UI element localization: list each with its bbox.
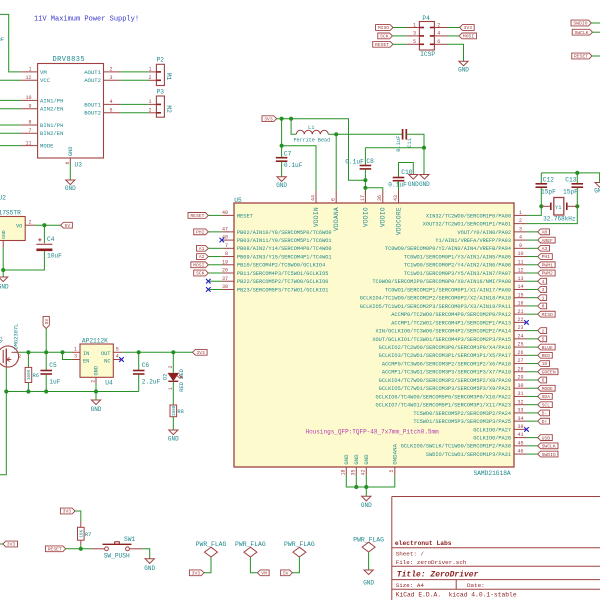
svg-text:4: 4 [437,31,440,37]
U5 pin 10 PA05 [514,256,527,258]
svg-text:GCLKIO0/PA28: GCLKIO0/PA28 [473,436,511,442]
svg-text:0: 0 [542,304,545,310]
wire pin 27 [527,363,538,365]
ground symbol near C11 [420,175,429,180]
svg-text:C7: C7 [284,151,292,158]
svg-text:A0: A0 [542,230,548,236]
label A0 [538,229,550,235]
wire C6 to ground rail [138,375,140,392]
label 1 [538,295,547,301]
connector P2 (M1) [156,64,164,85]
svg-text:AP2112K: AP2112K [82,338,108,345]
svg-text:18: 18 [341,470,347,476]
ground symbol near C10 [409,175,418,180]
U4 pin 3 EN [72,359,80,361]
svg-text:NC: NC [104,358,110,364]
U4 pin 5 OUT [113,351,121,353]
capacitor C7 0.1uF [276,157,288,159]
wire U4 OUT to 3V3 [122,351,193,353]
svg-text:GND: GND [91,406,102,413]
U5 pin 47 PB02 [222,231,234,233]
label PWM1 [538,262,555,268]
svg-text:12: 12 [25,75,31,81]
svg-text:GCLKIO7/TC4WO1/SERCOM5P1/SERCO: GCLKIO7/TC4WO1/SERCOM5P1/SERCOM3P1/X11/P… [376,403,511,409]
wire U3 GND [69,164,71,181]
svg-text:GCLKIO0/PA27: GCLKIO0/PA27 [473,427,511,433]
U5 pin 35 GND [355,467,357,475]
U5 pin 37 PB22 [222,280,234,282]
U3 pin 1 VM [21,71,38,73]
svg-text:M1: M1 [165,73,172,81]
svg-text:48: 48 [222,235,228,241]
svg-text:11V Maximum Power Supply!: 11V Maximum Power Supply! [34,16,139,24]
svg-text:23: 23 [517,325,523,331]
svg-text:PWM1: PWM1 [542,262,553,268]
power label VM [257,570,269,576]
P4 pin 3 [407,35,420,37]
label A2 [197,254,209,260]
label MOSI [191,262,208,268]
wire PWR_FLAG to 3V3 [204,557,211,573]
ground symbol below U4 [91,400,100,405]
svg-text:GND: GND [94,366,100,376]
svg-text:13: 13 [517,276,523,282]
label 5 [538,336,547,342]
wire C5 to ground rail [45,375,47,392]
svg-text:TC5WO0/SERCOM5P2/SERCOM3P2/PA2: TC5WO0/SERCOM5P2/SERCOM3P2/PA24 [413,411,511,417]
svg-text:43: 43 [393,195,399,201]
wire U5 pin 1 to crystal [527,187,542,215]
svg-text:35: 35 [351,470,357,476]
wire pin 41 [527,437,538,439]
svg-text:2.2uF: 2.2uF [142,379,161,386]
wire C4 to GND [3,251,44,270]
svg-text:GND: GND [65,185,76,192]
svg-text:GCLKIO5/TC1WO1/SERCOM2P3/SERCO: GCLKIO5/TC1WO1/SERCOM2P3/SERCOM0P3/X3/AI… [360,304,511,310]
U5 pin 13 PA08 [514,280,527,282]
ground symbol near crystal (clipped) [595,183,600,188]
svg-text:XOUT32/TC2WO1/SERCOM1P1/PA01: XOUT32/TC2WO1/SERCOM1P1/PA01 [423,222,511,228]
wire pin 21 [527,313,538,315]
U5 pin 30 PA21 [514,387,527,389]
power label 3V3 [189,570,204,576]
svg-text:C8: C8 [366,158,374,165]
wire C10 to VDDCORE pin 43 [398,181,400,195]
U5 pin 7 PB08 [222,247,234,249]
ground symbol below U5 [362,496,371,501]
svg-text:TC5WO1/SERCOM5P3/SERCOM3P3/PA2: TC5WO1/SERCOM5P3/SERCOM3P3/PA25 [413,419,511,425]
U5 pin 1 PA00 [514,214,527,216]
svg-text:44: 44 [310,195,316,201]
svg-text:7: 7 [225,243,228,249]
label 10 [538,361,550,367]
U4 pin 4 NC [113,359,121,361]
svg-text:Q1: Q1 [0,337,4,343]
svg-text:SCK: SCK [196,271,205,277]
power label 5V [61,222,73,228]
label 4 [538,278,547,284]
svg-text:11: 11 [25,140,31,146]
svg-text:33: 33 [517,408,523,414]
mcu U5 SAMD21G18A body [234,203,514,467]
label PWM2 [538,270,555,276]
no-connect pin 48 [220,238,225,243]
svg-text:BOUT2: BOUT2 [84,110,101,117]
U5 pin 26 PA17 [514,354,527,356]
svg-text:32.768kHz: 32.768kHz [543,215,576,222]
svg-text:Size: A4: Size: A4 [396,582,425,589]
svg-text:MODE: MODE [40,143,54,150]
svg-text:40: 40 [222,210,228,216]
wire pin 26 [527,354,538,356]
wire pin 24 [527,338,538,340]
svg-text:5V: 5V [44,319,50,325]
svg-text:17S5TR: 17S5TR [0,209,21,216]
svg-text:PH2: PH2 [196,230,205,236]
svg-text:C5: C5 [49,362,57,369]
U5 pin 18 GND [345,467,347,475]
svg-text:PB22/SERCOM5P2/TC7WO0/GCLKIO0: PB22/SERCOM5P2/TC7WO0/GCLKIO0 [237,279,328,285]
svg-text:PH1: PH1 [542,254,551,260]
connector P3 (M2) [156,96,164,117]
svg-text:GND: GND [361,502,372,509]
wire to U3 BIN1/PH [0,124,21,126]
svg-text:P4: P4 [422,15,430,22]
U3 pin 7 BIN2/EN [21,132,38,134]
wire pin 3 [527,231,538,233]
svg-text:VDDIO: VDDIO [362,207,369,227]
U4 pin 1 IN [72,351,80,353]
svg-text:8: 8 [28,120,31,126]
wire SWDIO to edge [591,22,600,24]
U5 pin 38 PB23 [222,288,234,290]
U2 pin 2 VO [25,224,35,226]
ic U2 regulator body (clipped at left edge) [0,217,25,241]
svg-text:3V3: 3V3 [196,350,205,356]
label D+ [538,418,550,424]
svg-text:2: 2 [148,108,151,114]
wire pin 9 [527,247,538,249]
svg-text:1: 1 [148,99,151,105]
label GREEN [538,369,558,375]
svg-text:6: 6 [542,378,545,384]
wire pin 11 [527,264,538,266]
svg-text:37: 37 [222,276,228,282]
U5 pin 43 VDDCORE [398,191,400,204]
svg-text:25: 25 [517,342,523,348]
svg-text:GCLKIO6/TC4WO0/SERCOM5P0/SERCO: GCLKIO6/TC4WO0/SERCOM5P0/SERCOM3P0/X10/P… [376,394,511,400]
svg-text:PB09/AIN3/Y15/SERCOM4P1/TC4WO1: PB09/AIN3/Y15/SERCOM4P1/TC4WO1 [237,254,332,260]
svg-text:VO: VO [16,223,22,229]
svg-text:SWDIO/TC1WO1/SERCOM1P3/PA31: SWDIO/TC1WO1/SERCOM1P3/PA31 [426,452,511,458]
svg-text:D+: D+ [542,419,548,425]
label D- [538,410,550,416]
svg-text:3: 3 [74,354,77,360]
wire pin 29 [527,379,538,381]
P4 pin 6 [434,43,447,45]
wire U5 ground bus [346,475,395,487]
svg-text:TC0WO1/SERCOM0P1/Y3/AIN1/AIN5/: TC0WO1/SERCOM0P1/Y3/AIN1/AIN5/PA05 [404,254,511,260]
wire PWR_FLAG GND [368,552,370,570]
U5 pin 41 PA28 [514,437,527,439]
U3 pin 5 BOUT2 [104,112,121,114]
P4 pin 4 [434,35,447,37]
svg-text:R7: R7 [85,532,91,538]
svg-text:A2: A2 [199,254,205,260]
svg-text:OUT: OUT [101,351,111,357]
svg-text:D-: D- [542,411,548,417]
svg-text:15pF: 15pF [563,188,578,195]
wire P4 pin 4 to MOSI [447,35,459,37]
label SCK at P4 [378,33,393,39]
label SWDIO [538,451,558,457]
svg-text:RESET: RESET [48,546,62,552]
wire to U3 VCC [0,79,21,81]
svg-text:L1: L1 [308,125,314,131]
svg-text:29: 29 [517,375,523,381]
label SWDIO (right edge) [571,20,591,26]
svg-text:ACCMP1/TC3WO1/SERCOM3P3/SERCOM: ACCMP1/TC3WO1/SERCOM3P3/SERCOM1P3/X7/PA1… [382,370,511,376]
svg-text:TC0WO0/SERCOM0P0/Y2/AIN0/AIN4/: TC0WO0/SERCOM0P0/Y2/AIN0/AIN4/VREFB/PA04 [385,246,511,252]
svg-text:M2: M2 [165,105,172,113]
svg-text:4: 4 [519,235,522,241]
svg-text:GND: GND [0,284,9,291]
wire SW1 to GND [143,549,150,559]
svg-text:0.1uF: 0.1uF [396,136,402,152]
capacitor C4 10uF [43,225,45,243]
ic U4 AP2112K body [80,344,113,377]
svg-text:USB: USB [542,435,551,441]
U5 pin 17 VDDIO [364,191,366,204]
label SCK [194,270,209,276]
svg-text:20: 20 [222,268,228,274]
svg-text:10: 10 [517,251,523,257]
power label 5V (vertical) [43,316,50,328]
svg-text:AREF: AREF [542,238,553,244]
svg-text:MISO: MISO [542,312,553,318]
svg-text:3V3: 3V3 [192,570,201,576]
svg-text:45: 45 [517,440,523,446]
P4 pin 1 [407,27,420,29]
svg-text:GND: GND [144,565,155,572]
wire pin 23 [527,330,538,332]
svg-text:2: 2 [110,67,113,73]
ground symbol below U2 [0,277,8,282]
ground symbol below PWR_FLAG [364,570,373,575]
svg-text:KiCad E.D.A. kicad 4.0.1-stab: KiCad E.D.A. kicad 4.0.1-stable [396,592,517,599]
P4 pin 2 [434,27,447,29]
svg-text:1000: 1000 [172,405,177,416]
wire L1 out to C11 [336,133,402,135]
U3 pin 3 AOUT2 [104,79,121,81]
svg-text:C13: C13 [565,177,576,184]
svg-text:RESET: RESET [574,54,588,60]
svg-text:PB10/SECOM4P2/TC5WO0/GCLKIO4: PB10/SECOM4P2/TC5WO0/GCLKIO4 [237,263,325,269]
U5 pin 14 PA09 [514,288,527,290]
svg-text:MOSI: MOSI [463,34,474,40]
no-connect pin 22 [524,320,529,325]
wire pin 16 [527,305,538,307]
U5 pin 11 PA06 [514,264,527,266]
svg-text:GND: GND [408,181,419,188]
svg-text:RED: RED [542,353,551,359]
resistor R6 [27,352,29,367]
svg-text:4: 4 [542,279,545,285]
wire pin 40 [208,214,222,216]
svg-text:5: 5 [110,108,113,114]
svg-text:GND: GND [353,454,360,465]
capacitor C11 0.1uF [402,129,404,140]
U5 pin 29 PA20 [514,379,527,381]
inductor L1 Ferrite Bead [291,119,296,135]
wire SWCLK to edge [593,31,600,33]
wire U2 VO to 5V [35,224,61,226]
capacitor C8 0.1uF [365,147,424,149]
wire pin 46 [527,453,538,455]
svg-text:AIN2/EN: AIN2/EN [40,106,64,113]
svg-text:R8: R8 [177,409,183,415]
svg-text:Date:: Date: [467,582,485,589]
ground symbol below C7 [277,177,286,182]
svg-text:C11: C11 [407,138,413,148]
wire PWR_FLAG to 5V [292,557,299,573]
wire 3V3 to C7 and VDDIN [281,119,283,157]
svg-text:GCLKIO0/SWCLK/TC1WO0/SERCOM1P2: GCLKIO0/SWCLK/TC1WO0/SERCOM1P2/PA30 [401,444,511,450]
svg-text:2: 2 [437,22,440,28]
U5 pin 20 PB11 [222,272,234,274]
svg-text:GND: GND [419,181,430,188]
svg-text:GND: GND [363,454,370,465]
svg-text:22: 22 [517,317,523,323]
wire P4 pin 6 to GND [447,44,464,61]
U4 pin 2 GND [95,377,97,383]
wire pin 25 [527,346,538,348]
U3 pin 8 BIN1/PH [21,124,38,126]
svg-text:0.1uF: 0.1uF [345,159,364,166]
svg-text:GND: GND [68,146,74,156]
svg-text:9: 9 [28,104,31,110]
P2 pin 2 [148,79,156,81]
label SWCLK [538,443,558,449]
svg-text:GCLKIO2/TC2WO0/SERCOM3P0/SERCO: GCLKIO2/TC2WO0/SERCOM3P0/SERCOM1P0/X4/PA… [379,345,511,351]
svg-text:SW_PUSH: SW_PUSH [104,553,130,560]
svg-text:3: 3 [413,31,416,37]
svg-text:electronut Labs: electronut Labs [395,540,452,547]
label A1 [197,245,209,251]
svg-text:GND: GND [343,454,350,465]
label MOSI at P4 [459,33,476,39]
wire R6 to ground rail [27,383,29,392]
svg-text:16: 16 [517,301,523,307]
U2 GND pin wire [2,241,4,248]
wire pin 34 [527,420,538,422]
label 6 [538,377,547,383]
P3 pin 1 [148,103,156,105]
wire pin 38 [208,288,222,290]
U5 pin 33 PA24 [514,412,527,414]
label SDA [538,394,553,400]
wire U4 GND rail to symbol [95,392,97,401]
svg-text:3V3: 3V3 [7,542,16,548]
svg-text:Housings_QFP:TQFP-48_7x7mm_Pit: Housings_QFP:TQFP-48_7x7mm_Pitch0.5mm [306,428,440,435]
label MISO [538,311,555,317]
svg-text:PB02/AIN10/Y8/SERCOM5P0/TC6WO0: PB02/AIN10/Y8/SERCOM5P0/TC6WO0 [237,230,332,236]
svg-text:PB11/SERCOM4P3/TC5WO1/GCLKIO5: PB11/SERCOM4P3/TC5WO1/GCLKIO5 [237,271,328,277]
svg-text:8: 8 [225,251,228,257]
svg-text:U2: U2 [0,195,6,202]
wire U3 to P2 pin 1 [120,71,148,73]
U5 pin 34 PA25 [514,420,527,422]
U5 pin 24 PA15 [514,338,527,340]
svg-text:XIN/GCLKIO0/TC3WO0/SERCOM4P2/S: XIN/GCLKIO0/TC3WO0/SERCOM4P2/SERCOM2P2/P… [376,329,511,335]
svg-text:31: 31 [517,391,523,397]
svg-text:GND: GND [168,436,179,443]
svg-text:MOSI: MOSI [193,262,204,268]
svg-text:VCC: VCC [40,77,51,84]
svg-text:GCLKIO4/TC1WO0/SERCOM2P2/SERCO: GCLKIO4/TC1WO0/SERCOM2P2/SERCOM0P2/X2/AI… [360,296,511,302]
svg-text:1: 1 [28,67,31,73]
wire MISO [393,27,407,29]
wire Q1 drain to 5V rail [19,351,72,353]
svg-text:21: 21 [517,309,523,315]
label SCL [538,402,553,408]
svg-text:PB03/AIN11/Y9/SERCOM5P1/TC6WO1: PB03/AIN11/Y9/SERCOM5P1/TC6WO1 [237,238,332,244]
svg-text:C12: C12 [543,177,554,184]
svg-text:46: 46 [517,449,523,455]
svg-text:3: 3 [110,75,113,81]
no-connect pin 39 [524,427,529,432]
svg-text:10K: 10K [79,529,84,537]
svg-text:VM: VM [261,570,267,576]
U5 pin 48 PB03 [222,239,234,241]
wire 5V label to rail [45,329,47,353]
svg-text:3: 3 [519,226,522,232]
svg-text:AOUT1: AOUT1 [84,69,101,76]
U3 pin 4 BOUT1 [104,103,121,105]
svg-text:2: 2 [28,219,31,225]
wire C11 to GND corner [406,134,424,174]
svg-text:SWCLK: SWCLK [542,444,556,450]
svg-text:ACCMP1/TC2WO1/SERCOM4P1/SERCOM: ACCMP1/TC2WO1/SERCOM4P1/SERCOM2P1/PA13 [391,320,511,326]
label RED [538,352,553,358]
svg-text:P3: P3 [157,88,165,95]
svg-text:VDDCORE: VDDCORE [395,207,402,235]
wire EN to rail [63,352,72,359]
wire pin 13 [527,280,538,282]
P4 pin 5 [407,43,420,45]
U5 pin 40 RESET [222,214,234,216]
svg-text:DMG2307L: DMG2307L [14,324,20,350]
label MODE [538,385,555,391]
svg-text:BIN1/PH: BIN1/PH [40,122,64,129]
label SWCLK (right edge) [572,29,592,35]
wire PWR_FLAG to VM [250,557,257,573]
U5 pin 28 PA19 [514,371,527,373]
svg-text:3V3: 3V3 [63,509,72,515]
wire pin 45 [527,445,538,447]
svg-text:TC1WO1/SERCOM0P3/Y5/AIN3/AIN7/: TC1WO1/SERCOM0P3/Y5/AIN3/AIN7/PA07 [404,271,511,277]
svg-text:15pF: 15pF [541,188,556,195]
svg-text:7: 7 [28,128,31,134]
svg-text:39: 39 [517,424,523,430]
svg-text:RESET: RESET [237,213,253,219]
svg-text:0.1uF: 0.1uF [388,181,407,188]
svg-text:28: 28 [517,366,523,372]
U5 pin 19 PB10 [222,264,234,266]
wire pin 28 [527,371,538,373]
U3 pin 2 AOUT1 [104,71,121,73]
svg-text:Sheet: /: Sheet: / [396,550,425,557]
